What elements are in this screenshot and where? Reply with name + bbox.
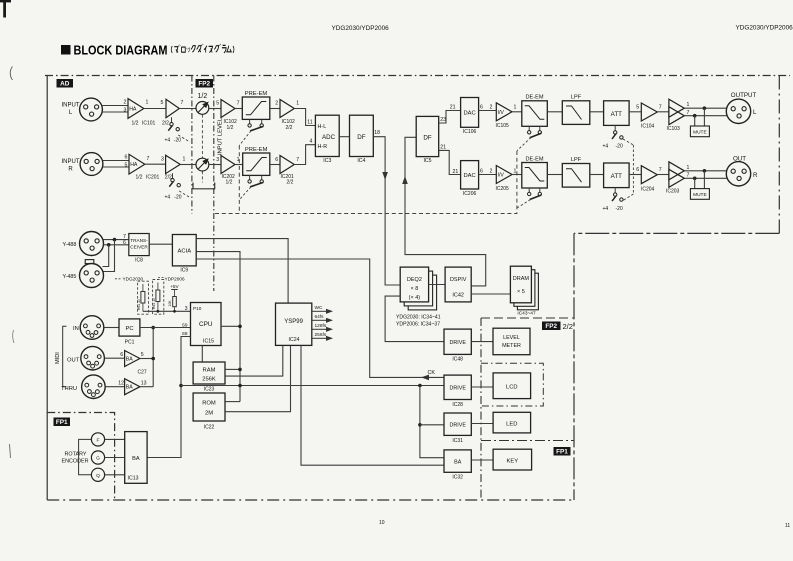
wire DAC to IV L (479, 110, 497, 112)
de-emphasis curve (525, 168, 545, 182)
svg-text:2/2: 2/2 (563, 322, 573, 331)
connector Y-485 latch tab (85, 260, 94, 264)
svg-text:IC28: IC28 (452, 402, 463, 408)
dashed link (239, 187, 251, 200)
CK arrowhead (421, 375, 429, 381)
svg-text:IC203: IC203 (666, 189, 680, 195)
wire to PRE-EM R (235, 164, 243, 166)
junction (238, 325, 242, 329)
svg-text:5: 5 (636, 105, 639, 111)
svg-text:1: 1 (687, 165, 690, 171)
LEVEL METER (493, 328, 530, 355)
svg-text:21: 21 (450, 105, 456, 111)
svg-text:× 8: × 8 (410, 286, 418, 292)
wire ATT L to IC104 (629, 111, 641, 113)
svg-text:23: 23 (440, 117, 446, 123)
svg-text:IC24: IC24 (289, 337, 300, 343)
LCD (493, 373, 530, 399)
svg-text:IC4: IC4 (357, 158, 365, 164)
svg-text:+4: +4 (165, 138, 171, 144)
wire F to BA (105, 438, 125, 440)
attenuator ATT R (604, 163, 630, 188)
svg-text:2: 2 (275, 101, 278, 107)
pre-emphasis curve (246, 102, 266, 115)
svg-text:IC204: IC204 (641, 187, 655, 193)
svg-text:7: 7 (237, 101, 240, 107)
FP2 pot boundary left (191, 76, 193, 214)
section label FP1 left (54, 418, 71, 427)
svg-text:G: G (96, 456, 100, 462)
svg-text:DF: DF (357, 134, 365, 141)
svg-text:YDG2030: IC34~41: YDG2030: IC34~41 (396, 315, 441, 321)
svg-text:× 5: × 5 (517, 289, 525, 295)
connector INPUT R XLR (80, 153, 103, 176)
svg-text:IC8: IC8 (135, 258, 143, 264)
svg-text:21: 21 (440, 145, 446, 151)
svg-text:7: 7 (687, 173, 690, 179)
wire Y-488 to transceiver (104, 239, 129, 241)
wire ATT R to IC204 (629, 174, 641, 176)
junction (238, 384, 242, 388)
switch +4/-20 input L (171, 117, 173, 123)
svg-text:5: 5 (125, 163, 128, 169)
junction (179, 384, 183, 388)
wire to MUTE L (703, 108, 705, 126)
svg-text:7: 7 (147, 156, 150, 162)
svg-text:2: 2 (124, 100, 127, 106)
de-emphasis curve (525, 106, 545, 120)
wire HA to amp R (145, 163, 166, 165)
TRANS-CEIVER IC8 (129, 234, 149, 256)
wire DRIVE to LCD (471, 386, 493, 388)
svg-text:5: 5 (216, 101, 219, 107)
wire amp to pot R (180, 164, 196, 166)
svg-text:OUTPUT: OUTPUT (731, 92, 757, 99)
pot gang bracket (193, 183, 215, 189)
svg-text:IC31: IC31 (452, 438, 463, 444)
switch PRE-EM L bypass (249, 119, 251, 124)
svg-text:AD: AD (60, 81, 70, 88)
BA IC32 (444, 450, 471, 472)
gang dashed box bottom (238, 146, 240, 214)
op-amp I/V IC105 (496, 103, 512, 121)
wire PRE-EM L out (270, 108, 280, 110)
margin mark mid (13, 330, 14, 343)
svg-text:YSP99: YSP99 (284, 319, 303, 325)
svg-text:S8: S8 (182, 331, 188, 336)
margin mark low (10, 444, 11, 458)
switch PRE-EM R bypass (249, 175, 251, 180)
svg-text:1: 1 (237, 157, 240, 163)
wire DF IC4 to DEQ2 (373, 137, 400, 285)
wire DRIVE to LEVEL METER (471, 341, 493, 343)
svg-text:INPUT: INPUT (62, 159, 80, 165)
svg-text:ACIA: ACIA (178, 249, 192, 255)
svg-text:LEVEL: LEVEL (503, 335, 520, 341)
option box YDP2006 (153, 280, 164, 315)
DRIVE IC48 (444, 329, 471, 354)
svg-text:BA: BA (126, 357, 133, 363)
wire transceiver to ACIA (149, 243, 172, 245)
border top dash-dot (45, 75, 790, 77)
wire DE-EM L to LPF (547, 111, 562, 113)
svg-text:2/2: 2/2 (162, 121, 169, 127)
junction (238, 368, 242, 372)
svg-text:DRIVE: DRIVE (449, 423, 466, 429)
DRIVE IC31 (444, 413, 471, 435)
connector MIDI OUT DIN (81, 346, 105, 370)
wire option to CPU P10 (143, 310, 191, 312)
wire bus branch down (420, 386, 444, 458)
DAC IC206 (461, 161, 479, 189)
op-amp IC201 2/2 (280, 156, 294, 174)
op-amp IC201 2/2 pre (166, 155, 181, 173)
svg-text:10: 10 (379, 520, 385, 526)
wire ROM to bus (225, 401, 240, 403)
svg-text:FP1: FP1 (56, 419, 68, 426)
wire IC204 to IC203 (657, 174, 669, 176)
wire DSPIV to DRAM (471, 293, 510, 295)
svg-text:5: 5 (141, 352, 144, 358)
svg-text:WC: WC (315, 305, 324, 311)
wire YSP99 to key matrix (301, 345, 444, 465)
svg-text:MUTE: MUTE (693, 192, 707, 198)
svg-text:ATT: ATT (611, 173, 622, 180)
wire IC102 to ADC H-L (294, 109, 315, 126)
connector MIDI THRU DIN (82, 375, 106, 399)
svg-text:LED: LED (506, 422, 517, 428)
svg-text:LPF: LPF (571, 157, 582, 163)
svg-text:+4: +4 (603, 206, 609, 212)
DF IC5 (416, 116, 439, 156)
svg-text:L: L (753, 109, 757, 116)
wire OUT to BA (104, 357, 124, 359)
gang dashed horizontal (215, 151, 517, 214)
switch DE-EM L (528, 126, 530, 131)
svg-text:1: 1 (514, 169, 517, 175)
margin mark parenthesis (10, 67, 12, 81)
op-amp IC202 1/2 (221, 156, 235, 174)
DF IC4 (350, 115, 374, 156)
svg-text:1/2: 1/2 (132, 121, 139, 127)
LCD dash box (481, 363, 543, 406)
op-amp I/V IC205 (496, 166, 512, 184)
svg-text:13: 13 (141, 381, 147, 387)
svg-text:FP2: FP2 (545, 323, 557, 330)
svg-text:1: 1 (296, 101, 299, 107)
svg-text:2M: 2M (205, 411, 213, 417)
svg-text:1/2: 1/2 (136, 175, 143, 181)
dashed link (178, 135, 190, 142)
svg-text:INPUT: INPUT (62, 103, 80, 109)
svg-text:ROM: ROM (202, 401, 216, 407)
junction (157, 310, 160, 313)
encoder contact F (91, 433, 104, 446)
svg-text:IC106: IC106 (463, 129, 477, 135)
svg-text:Y-488: Y-488 (63, 242, 77, 248)
svg-text:+5V: +5V (170, 284, 179, 289)
svg-text:YDG2030/YDP2006: YDG2030/YDP2006 (332, 25, 390, 32)
svg-text:-20: -20 (616, 144, 623, 150)
svg-text:IC13: IC13 (128, 476, 139, 482)
wire DRIVE to LED (471, 423, 493, 425)
ROM IC22 (193, 393, 225, 421)
svg-text:5: 5 (161, 100, 164, 106)
svg-text:6: 6 (123, 240, 126, 246)
border bottom dash-dot (47, 499, 574, 501)
svg-text:YDP2006: IC34~37: YDP2006: IC34~37 (396, 322, 440, 328)
wire ACIA to bus (196, 252, 240, 402)
border notch horizontal (574, 232, 779, 234)
svg-text:11: 11 (307, 119, 312, 125)
wire HA to amp (144, 108, 166, 110)
svg-text:IC42: IC42 (452, 293, 464, 299)
svg-text:CPU: CPU (199, 321, 213, 328)
resistor R61 (156, 290, 160, 302)
svg-text:11: 11 (785, 523, 790, 529)
svg-text:HA: HA (130, 162, 138, 168)
wire IC103 to XLR out L upper (684, 107, 727, 109)
resistor 10K (173, 297, 177, 307)
DRAM stack shadows (517, 273, 538, 310)
wire DEQ2 to DSPIV (429, 284, 446, 286)
section label FP2 2/2 (542, 322, 561, 331)
switch ATT L +4/-20 (614, 125, 616, 130)
svg-text:DRIVE: DRIVE (449, 386, 466, 392)
op-amp IC204 (641, 166, 657, 184)
wire PRE-EM R out (270, 164, 280, 166)
svg-text:-20: -20 (174, 138, 181, 144)
svg-text:1/2: 1/2 (198, 93, 208, 100)
FP2 pot boundary right (213, 76, 215, 292)
svg-text:DF: DF (423, 135, 431, 142)
svg-text:R: R (753, 172, 758, 179)
svg-text:DRIVE: DRIVE (449, 340, 466, 346)
svg-text:128fs: 128fs (315, 323, 327, 329)
wire IC103 to XLR out L lower (684, 115, 727, 117)
DRIVE IC28 (444, 375, 471, 399)
wire IN to PC (104, 327, 119, 329)
svg-text:2/2: 2/2 (286, 125, 293, 131)
wire Q to BA (105, 474, 125, 476)
svg-text:Q: Q (96, 473, 100, 479)
svg-text:H-R: H-R (318, 144, 328, 150)
svg-text:7: 7 (659, 105, 662, 111)
svg-text:3: 3 (216, 157, 219, 163)
wire DF IC5 to DAC L (439, 111, 461, 124)
dashed link (179, 191, 190, 198)
filter DE-EM L (522, 101, 548, 127)
switch DE-EM R (528, 188, 530, 193)
dashed link (239, 131, 251, 146)
svg-text:256K: 256K (202, 377, 216, 383)
svg-text:S9: S9 (182, 322, 188, 327)
op-amp HA IC101 1/2 (128, 99, 144, 119)
junction (113, 238, 117, 242)
op-amp IC101 2/2 (166, 99, 179, 117)
svg-text:R: R (68, 167, 73, 173)
border right dash-dot (778, 76, 780, 234)
svg-text:R61 10: R61 10 (152, 298, 156, 309)
svg-text:IC105: IC105 (496, 123, 510, 129)
svg-text:BA: BA (132, 456, 140, 462)
svg-text:I/V: I/V (498, 173, 505, 179)
section label FP1 right (554, 447, 571, 456)
svg-text:DSPIV: DSPIV (450, 277, 467, 283)
wire to PRE-EM L (235, 108, 242, 110)
wire DE-EM R to LPF (547, 174, 562, 176)
svg-text:1: 1 (687, 102, 690, 108)
DEQ2 stack shadows (408, 275, 436, 310)
wire ADC to DF (339, 136, 349, 138)
svg-text:7: 7 (181, 100, 184, 106)
line-driver IC203 (669, 162, 684, 180)
wire DEQ2 out to DRIVE IC48 (385, 296, 444, 342)
svg-text:+4: +4 (165, 195, 171, 201)
svg-text:12: 12 (118, 381, 124, 387)
svg-text:6: 6 (125, 155, 128, 161)
wire pot L to IC102 (209, 108, 221, 110)
dashed link DE-EM R (517, 200, 531, 209)
svg-text:IC3: IC3 (323, 158, 331, 164)
svg-text:YDP2006: YDP2006 (165, 277, 185, 282)
resistor R61 (141, 292, 145, 304)
svg-text:256fs: 256fs (315, 332, 327, 338)
svg-text:DRAM: DRAM (513, 276, 530, 282)
svg-text:IC206: IC206 (463, 191, 477, 197)
FP1/FP2 divider right (481, 440, 574, 442)
svg-text:3: 3 (185, 306, 188, 312)
wire IV to DE-EM R (512, 174, 522, 176)
scan corner mark top-left (0, 0, 11, 2)
LED (493, 412, 530, 433)
section label FP2 top (196, 79, 214, 88)
FP1 boundary dash-dot (47, 413, 114, 501)
section label AD (57, 79, 74, 88)
svg-text:DAC: DAC (463, 173, 475, 179)
MIDI bracket (63, 326, 67, 386)
wire pot R to IC202 (209, 164, 221, 166)
wire INPUT L to HA (102, 105, 128, 107)
connector OUT R XLR (726, 162, 750, 186)
svg-text:4: 4 (310, 139, 313, 145)
dash lead (115, 278, 122, 280)
svg-text:IC5: IC5 (423, 158, 431, 164)
svg-text:IC48: IC48 (452, 357, 463, 363)
wire IC201 to ADC H-R (294, 145, 315, 165)
DAC IC106 (461, 98, 479, 128)
svg-text:3: 3 (161, 157, 164, 163)
op-amp HA IC201 1/2 (129, 154, 145, 174)
svg-text:MIDI: MIDI (55, 352, 61, 364)
svg-text:6: 6 (480, 105, 483, 111)
switch +4/-20 input R (172, 173, 174, 179)
svg-text:OUT: OUT (67, 358, 80, 364)
title (61, 45, 71, 55)
YSP99 IC24 (276, 303, 312, 345)
svg-text:P10: P10 (193, 306, 202, 311)
CPU IC15 (191, 303, 222, 346)
svg-text:R61 10: R61 10 (137, 299, 141, 310)
svg-text:7: 7 (296, 157, 299, 163)
svg-text:ADC: ADC (322, 134, 336, 141)
pot gang shaft dashed (201, 115, 203, 158)
svg-text:DAC: DAC (463, 111, 475, 117)
op-amp IC102 1/2 (221, 100, 235, 118)
svg-text:THRU: THRU (61, 386, 77, 392)
svg-text:RAM: RAM (203, 368, 216, 374)
wire DSPIV return to DF IC5 (405, 137, 486, 286)
filter LPF L (562, 101, 590, 125)
svg-text:DE-EM: DE-EM (525, 95, 543, 101)
svg-text:IC15: IC15 (203, 339, 214, 345)
filter PRE-EM R (243, 153, 270, 175)
dashed gang ATT vertical (632, 145, 634, 194)
wire Y-485 parallel (103, 240, 114, 272)
photocoupler PC1 (119, 319, 140, 336)
dash lead (158, 277, 164, 279)
wire PC to CPU S9 (140, 327, 191, 329)
option box YDG2030 (138, 281, 149, 314)
dashed link ATT R (623, 194, 633, 201)
wire RAM to YSP99 (225, 345, 283, 376)
connector OUTPUT L XLR (726, 99, 750, 123)
svg-text:LPF: LPF (571, 95, 582, 101)
svg-text:IC201: IC201 (146, 175, 160, 181)
svg-text:64fs: 64fs (315, 314, 325, 320)
junction (418, 423, 422, 427)
connector INPUT L XLR (80, 98, 103, 121)
svg-text:METER: METER (502, 343, 521, 349)
wire BA THRU to node (140, 386, 153, 388)
svg-text:TRANS-: TRANS- (130, 238, 148, 243)
wire amp to pot L (179, 108, 196, 110)
svg-text:DE-EM: DE-EM (525, 157, 543, 163)
svg-text:1/2: 1/2 (226, 180, 233, 186)
svg-text:DEQ2: DEQ2 (407, 277, 422, 283)
DSPIV IC42 (445, 267, 471, 302)
potentiometer INPUT LEVEL L (196, 102, 209, 115)
svg-text:IC9: IC9 (180, 268, 188, 274)
svg-text:7: 7 (687, 110, 690, 116)
wire G to BA (105, 457, 125, 459)
svg-text:7: 7 (659, 167, 662, 173)
svg-text:-20: -20 (616, 206, 623, 212)
line-driver IC103 (669, 99, 684, 117)
MUTE L (690, 126, 709, 137)
svg-text:L: L (69, 110, 73, 116)
wire RAM to bus (225, 368, 240, 370)
svg-text:6: 6 (480, 169, 483, 175)
svg-text:2: 2 (490, 169, 493, 175)
wire DAC to IV R (479, 174, 497, 176)
svg-text:(× 4): (× 4) (409, 295, 421, 301)
connector Y-488 XLR (80, 232, 104, 256)
svg-text:PRE-EM: PRE-EM (245, 91, 268, 97)
wire CPU bottom to RAM (201, 346, 203, 363)
buffer BA MIDI OUT (125, 351, 140, 367)
border mid vertical (573, 233, 575, 500)
wire ROM to YSP99 (225, 345, 291, 411)
border left (46, 76, 48, 501)
svg-text:6: 6 (636, 167, 639, 173)
svg-text:ENCODER: ENCODER (62, 459, 89, 465)
svg-text:BLOCK DIAGRAM: BLOCK DIAGRAM (74, 44, 168, 58)
svg-text:BA: BA (454, 460, 462, 466)
svg-text:IC101: IC101 (142, 121, 156, 127)
wire CPU right to bus (221, 325, 240, 327)
FP2 2/2 left dash-dot (480, 318, 482, 500)
